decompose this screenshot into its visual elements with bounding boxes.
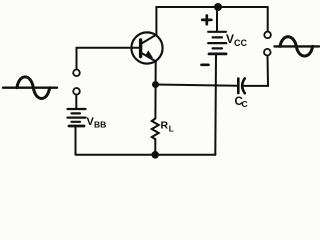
wire (input top terminal up and right to transistor base): [77, 48, 140, 70]
wire (emitter junction right to capacitor): [156, 85, 238, 86]
svg-text:R: R: [161, 119, 169, 131]
wire (bottom rail): [76, 154, 216, 156]
label VBB: [87, 116, 107, 130]
input terminal (top): [73, 70, 80, 77]
wire (top rail dot down to VCC battery): [216, 7, 218, 31]
node (resistor-rail junction dot): [152, 152, 159, 159]
wire (top rail right corner down to output top terminal): [267, 7, 269, 32]
AC source (input signal sine symbol): [3, 77, 57, 99]
input terminal (bottom): [73, 88, 80, 95]
capacitor CC: [238, 78, 245, 93]
battery VCC: [208, 32, 226, 54]
transistor Q1: [131, 32, 162, 63]
svg-text:C: C: [242, 99, 248, 109]
wire (emitter down through junction to resistor): [154, 61, 156, 119]
output terminal (top): [264, 32, 271, 39]
wire (bottom input terminal to VBB battery): [75, 95, 77, 108]
svg-text:CC: CC: [234, 38, 247, 48]
node (VCC tap junction on top rail): [215, 4, 222, 11]
wire (resistor bottom to rail): [154, 139, 156, 155]
label RL: [161, 119, 174, 133]
svg-text:V: V: [226, 32, 234, 46]
label - (VCC negative): [202, 64, 209, 67]
wire (capacitor right to corner and up to output bottom terminal): [242, 56, 268, 86]
label VCC: [226, 32, 247, 48]
wire (VBB bottom down to bottom rail): [75, 128, 77, 154]
AC source (output signal sine symbol): [275, 37, 320, 56]
node (emitter junction dot): [153, 82, 159, 88]
svg-text:L: L: [169, 124, 174, 133]
wire (VCC bottom down to bottom rail corner): [214, 55, 217, 155]
wire (collector up to top rail): [156, 7, 267, 35]
label + (VCC positive): [202, 16, 211, 25]
resistor RL: [152, 119, 159, 140]
battery VBB: [68, 109, 86, 126]
label CC: [235, 96, 248, 109]
output terminal (bottom): [264, 49, 271, 56]
svg-text:BB: BB: [94, 120, 106, 130]
